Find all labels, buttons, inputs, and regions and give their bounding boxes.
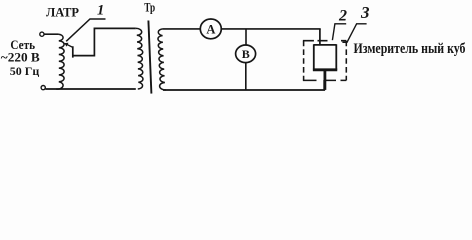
wire: secondary top to ammeter xyxy=(163,28,201,30)
svg-text:3: 3 xyxy=(360,3,370,22)
autotransformer T1 winding xyxy=(56,34,64,89)
svg-text:Измеритель ный куб: Измеритель ный куб xyxy=(354,41,466,57)
wire: voltmeter branch bottom xyxy=(245,63,247,90)
wire: cube bottom stub (thick) xyxy=(323,71,326,90)
leader line for label 3 xyxy=(342,24,366,43)
wire: voltmeter branch top xyxy=(245,29,247,45)
wire: wiper tap step to transformer primary top xyxy=(73,28,136,57)
transformer secondary winding xyxy=(157,29,166,90)
leader line for label 1 xyxy=(66,19,105,41)
ammeter A xyxy=(200,19,221,39)
terminal (top input) xyxy=(40,32,44,36)
svg-text:Тр: Тр xyxy=(144,0,155,14)
svg-text:Сеть: Сеть xyxy=(10,37,35,52)
wire: bottom rail right (secondary to cube) xyxy=(163,80,324,90)
transformer core xyxy=(148,21,151,94)
svg-text:В: В xyxy=(242,47,250,61)
measuring cube outer dashed boundary (bottom edge dashes) xyxy=(303,79,346,81)
transformer primary winding xyxy=(136,28,144,89)
wire: bottom rail left (terminal to transformer primary) xyxy=(45,88,135,90)
svg-text:50 Гц: 50 Гц xyxy=(10,64,40,78)
wire: ammeter to right corner xyxy=(221,28,321,30)
svg-text:ЛАТР: ЛАТР xyxy=(46,4,79,19)
svg-text:~220 В: ~220 В xyxy=(1,51,40,65)
measuring cube bottom plate (thick) xyxy=(313,68,337,71)
svg-text:1: 1 xyxy=(97,2,104,18)
measuring cube outer dashed boundary (right edge dashes) xyxy=(345,41,347,81)
measuring cube outer dashed boundary (top edge dashes) xyxy=(303,40,346,42)
voltmeter B xyxy=(236,45,256,63)
wire: right corner down to cube top plate xyxy=(319,29,321,45)
svg-text:А: А xyxy=(206,22,215,36)
measuring cube inner body (electrode box) xyxy=(314,44,337,70)
measuring cube outer dashed boundary (left edge dashes) xyxy=(303,41,305,81)
wire: top terminal to LATR coil xyxy=(44,33,58,35)
svg-text:2: 2 xyxy=(338,8,347,25)
leader line for label 2 xyxy=(332,24,346,40)
wiper arrow of T1 xyxy=(66,44,73,47)
terminal (bottom input) xyxy=(41,86,45,90)
